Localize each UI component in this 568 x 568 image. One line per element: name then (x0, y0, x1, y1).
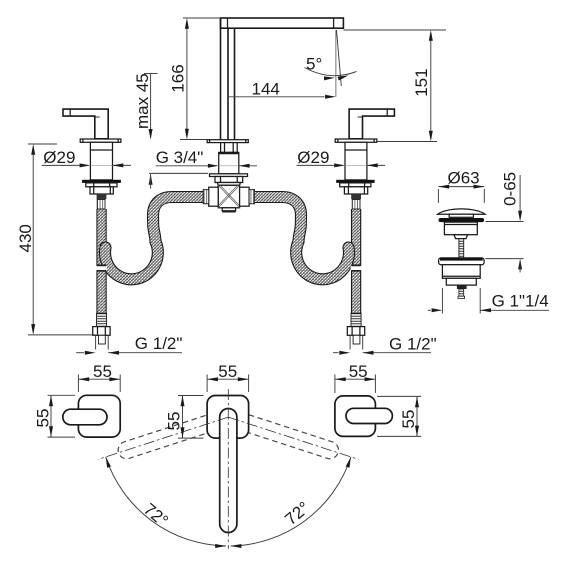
svg-text:55: 55 (349, 362, 368, 381)
svg-text:G 1/2": G 1/2" (389, 335, 437, 354)
left escutcheon (80, 139, 121, 142)
right connector hose loop (braided S-curve) (251, 197, 349, 279)
dimension G 1 1/4 (428, 288, 549, 314)
right hose gap (351, 265, 362, 270)
right lower flange (340, 183, 371, 187)
spout vertical column (221, 18, 235, 140)
svg-text:166: 166 (169, 64, 188, 92)
dimension max 45 (133, 73, 208, 188)
bottom view centre square escutcheon (207, 396, 249, 439)
dimension 151 (343, 30, 446, 142)
bottom view left square escutcheon (78, 395, 120, 437)
svg-text:430: 430 (16, 224, 35, 252)
svg-text:0-65: 0-65 (500, 172, 519, 206)
dimension 55 centre square height (164, 396, 203, 439)
dimension 55 right square width (335, 362, 376, 393)
tee right port nut (240, 187, 250, 206)
drain pin nut (457, 285, 467, 289)
drain bottom step (446, 278, 476, 285)
tee right ridge connector (249, 190, 255, 204)
drain cap neck (449, 214, 473, 217)
svg-text:max 45: max 45 (133, 73, 152, 129)
svg-text:G 3/4": G 3/4" (156, 148, 204, 167)
svg-text:55: 55 (399, 410, 418, 429)
spout vertical centreline (227, 389, 229, 549)
right black mounting flange (336, 180, 374, 183)
bottom view spout capsule (220, 409, 237, 533)
left swing centreline (98, 417, 228, 459)
svg-text:5°: 5° (306, 55, 322, 74)
right valve body (345, 142, 367, 180)
dimension 166 (169, 18, 221, 140)
tee body with cross (218, 185, 239, 208)
right hose crimp (351, 194, 361, 199)
centre lower flange (210, 174, 248, 177)
right ghost spout (dashed) (235, 412, 341, 461)
left 72 degree arc (104, 456, 226, 548)
svg-text:55: 55 (218, 362, 237, 381)
drain upper body (444, 222, 477, 235)
spout horizontal arm (221, 18, 344, 28)
left hose crimp (97, 194, 107, 199)
tee left port nut (209, 187, 219, 206)
right escutcheon (335, 139, 377, 142)
left hose end nut G1/2 (93, 327, 110, 336)
svg-text:151: 151 (412, 68, 431, 96)
5 degree stream angle (305, 30, 357, 97)
dimension G 3/4 (156, 148, 257, 168)
centre lock nut (215, 177, 243, 183)
bottom view right square escutcheon (335, 396, 376, 437)
svg-text:55: 55 (93, 362, 112, 381)
dimension diam 63 (438, 169, 484, 204)
svg-text:Ø29: Ø29 (43, 148, 75, 167)
dimension diam 29 right (297, 148, 386, 167)
svg-text:Ø29: Ø29 (297, 148, 329, 167)
right hose end sleeve (351, 313, 361, 326)
svg-text:55: 55 (34, 409, 53, 428)
left valve body (90, 142, 112, 180)
dimension 55 left square height (34, 395, 76, 437)
left supply hose (braided) (96, 209, 106, 313)
tee left ridge connector (203, 190, 209, 204)
dimension 55 right square height (377, 396, 421, 436)
drain lower body (442, 265, 480, 279)
dimension 55 centre square width (207, 362, 249, 392)
left connector hose loop (braided S-curve) (105, 197, 206, 279)
left mounting nut (90, 187, 113, 194)
left black mounting flange (82, 180, 121, 183)
dimension G 1/2 right (333, 335, 437, 355)
left threaded stub (99, 335, 106, 344)
left handle lever (63, 109, 108, 139)
tee bottom cap (222, 208, 235, 213)
dimension 0-65 (486, 172, 524, 273)
right hose end nut G1/2 (347, 327, 364, 336)
bottom view right handle capsule (346, 408, 392, 423)
drain body taper (454, 235, 468, 239)
right supply hose (braided) (351, 209, 361, 313)
right handle lever (349, 109, 394, 139)
dimension 144 (228, 80, 336, 99)
svg-text:55: 55 (164, 412, 183, 431)
drain dome cap (438, 209, 486, 214)
drain threaded rod (459, 239, 464, 258)
drain seal ring (black) (439, 218, 485, 222)
svg-text:G 1/2": G 1/2" (135, 334, 183, 353)
right mounting nut (344, 187, 367, 194)
dimension G 1/2 left (76, 334, 182, 355)
dimension 55 left square width (78, 362, 120, 392)
right 72 degree arc (231, 456, 353, 548)
svg-text:144: 144 (252, 80, 280, 99)
drain lower flange (439, 258, 485, 265)
centre body G3/4 (219, 152, 239, 173)
svg-text:Ø63: Ø63 (448, 169, 480, 188)
left lower flange (86, 183, 117, 187)
svg-text:G 1"1/4: G 1"1/4 (492, 292, 549, 311)
bottom view left handle capsule (63, 409, 107, 425)
left hose end sleeve (97, 313, 107, 326)
tee taper (217, 183, 240, 186)
right swing centreline (228, 417, 358, 459)
dimension 430 (16, 144, 96, 335)
centre top nut (221, 143, 238, 153)
drain pin (458, 289, 465, 298)
right hose fitting (352, 200, 360, 210)
left ghost spout (dashed) (116, 412, 222, 461)
left hose gap (96, 265, 107, 270)
right threaded stub (353, 335, 360, 344)
dimension diam 29 left (42, 148, 131, 167)
centre escutcheon flange (207, 140, 248, 143)
left hose fitting (97, 200, 105, 210)
